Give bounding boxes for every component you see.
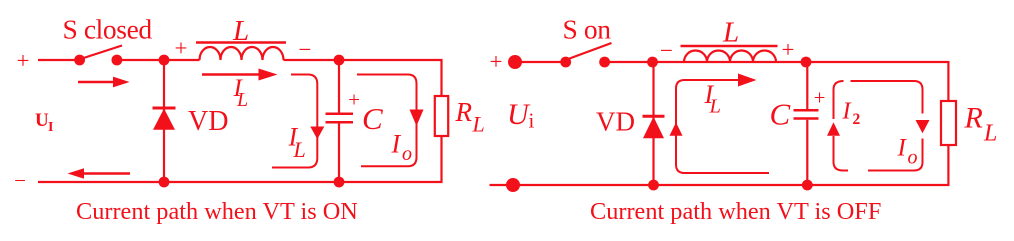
svg-text:−: − <box>660 38 673 63</box>
svg-text:C: C <box>770 97 791 132</box>
svg-text:C: C <box>362 101 383 136</box>
svg-text:−: − <box>299 37 312 62</box>
svg-text:−: − <box>14 169 26 193</box>
svg-text:R: R <box>964 102 983 135</box>
svg-text:i: i <box>529 109 535 133</box>
svg-text:+: + <box>175 36 188 61</box>
svg-text:+: + <box>348 88 360 112</box>
svg-text:L: L <box>293 137 306 162</box>
svg-text:I: I <box>48 120 53 135</box>
svg-text:o: o <box>908 147 918 169</box>
svg-text:+: + <box>782 37 795 62</box>
svg-text:o: o <box>402 143 412 165</box>
svg-text:U: U <box>35 110 49 131</box>
svg-text:Current path when VT is ON: Current path when VT is ON <box>76 198 358 225</box>
svg-text:L: L <box>472 112 485 137</box>
svg-text:L: L <box>236 89 248 111</box>
svg-text:I: I <box>391 130 402 159</box>
svg-text:L: L <box>709 96 721 118</box>
svg-text:+: + <box>814 86 826 110</box>
svg-text:I: I <box>897 135 908 162</box>
svg-text:Current path when VT is OFF: Current path when VT is OFF <box>590 198 881 225</box>
svg-text:L: L <box>722 17 739 49</box>
svg-text:VD: VD <box>596 107 635 137</box>
svg-text:+: + <box>490 49 503 74</box>
svg-text:L: L <box>983 121 997 147</box>
svg-text:2: 2 <box>853 111 861 128</box>
svg-text:I: I <box>842 99 852 125</box>
svg-text:VD: VD <box>188 106 228 137</box>
svg-text:S closed: S closed <box>63 14 153 45</box>
svg-text:S on: S on <box>563 14 612 45</box>
svg-text:R: R <box>455 97 473 127</box>
svg-text:U: U <box>507 98 531 131</box>
svg-text:+: + <box>17 48 30 73</box>
svg-text:L: L <box>232 15 249 47</box>
